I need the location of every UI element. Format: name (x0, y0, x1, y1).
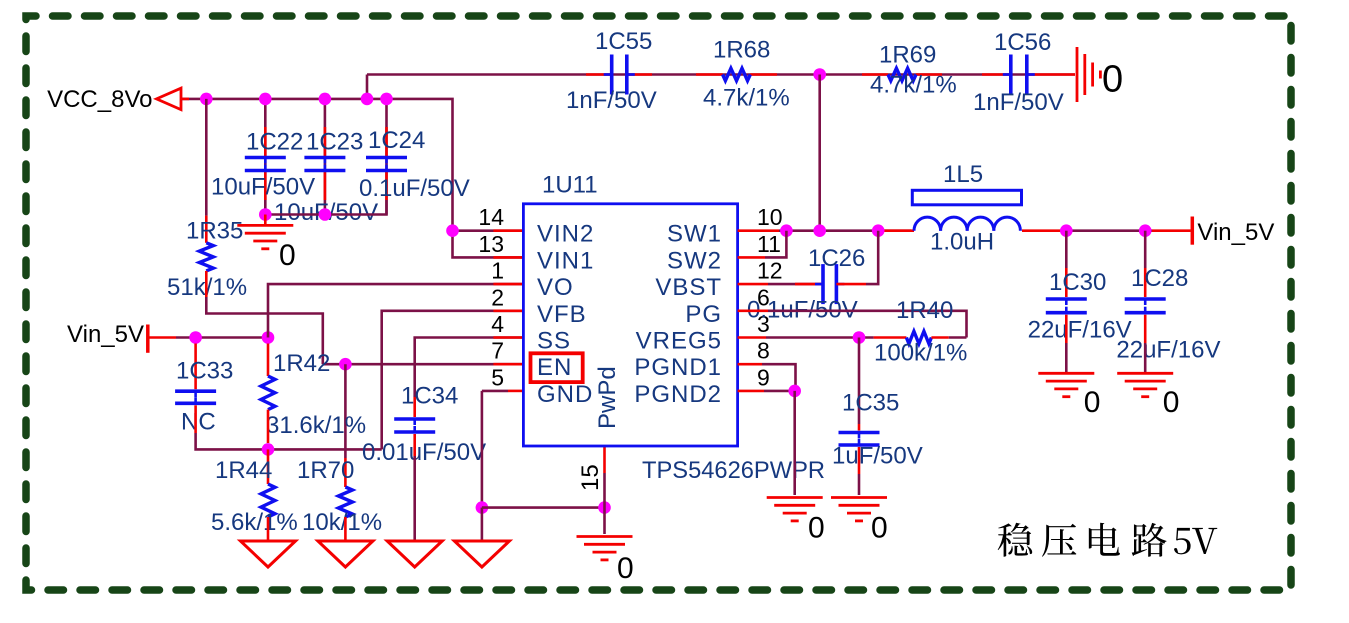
pin name VREG5 (636, 328, 722, 355)
svg-text:10: 10 (757, 204, 783, 230)
wire GND net (482, 390, 508, 393)
svg-text:4: 4 (491, 311, 504, 337)
junction snubber mid node (813, 68, 826, 81)
svg-text:TPS54626PWPR: TPS54626PWPR (642, 457, 825, 484)
junction VO / R42 (262, 331, 275, 344)
power port Vin_5V left (67, 321, 148, 353)
capacitor C22 (211, 129, 315, 201)
wire C34 lead top red (413, 397, 416, 417)
wire R40 right lead red (931, 336, 948, 339)
power port Vin_5V right (1192, 217, 1274, 247)
junction PwPd gnd (598, 501, 611, 514)
wire C24 lead2 red (385, 171, 388, 201)
pin number 14 (478, 204, 504, 230)
ground 0 under PwPd (577, 537, 634, 586)
svg-text:EN: EN (537, 354, 572, 381)
junction SW snubber (813, 224, 826, 237)
ground 0 under C30 (1038, 373, 1100, 419)
wire C22 lead2 red (264, 171, 267, 201)
resistor R70 (297, 457, 382, 536)
wire R70 lead bot red (344, 517, 347, 541)
junction C22 gnd (259, 208, 272, 221)
svg-text:13: 13 (478, 231, 504, 257)
svg-text:1nF/50V: 1nF/50V (973, 89, 1064, 116)
pin name VFB (537, 301, 587, 328)
wire R35 to EN (206, 297, 322, 364)
svg-text:PwPd: PwPd (594, 366, 621, 429)
wire pin lead VREG5 red (738, 336, 766, 339)
wire VCC port stub red (181, 98, 189, 101)
pin number 11 (757, 231, 781, 257)
svg-text:SW1: SW1 (667, 221, 722, 248)
ground 0 under C35 (831, 498, 888, 545)
svg-text:0: 0 (279, 239, 296, 272)
wire R42 lead bot red (267, 410, 270, 443)
wire C28 to gnd (1144, 343, 1147, 373)
junction C28 top (1139, 224, 1152, 237)
wire R40 to PG (949, 336, 967, 339)
wire VCC_8Vo rail (181, 99, 523, 258)
wire pin15 down (603, 473, 606, 534)
svg-text:1R69: 1R69 (879, 42, 936, 69)
wire cap gnd bus (265, 200, 386, 215)
junction GND tri (476, 501, 489, 514)
pin name PG (685, 301, 722, 328)
pin number 3 (757, 311, 770, 337)
wire pin lead PGND2 red (738, 390, 764, 393)
pin name SW2 (667, 247, 722, 274)
svg-text:1C30: 1C30 (1049, 269, 1106, 296)
capacitor C55 (566, 28, 657, 114)
capacitor C23 (274, 129, 378, 226)
svg-text:VFB: VFB (537, 301, 587, 328)
IC U11 TPS54626PWPR body (523, 172, 825, 484)
wire C28 top (1144, 231, 1147, 268)
svg-text:1R44: 1R44 (215, 457, 272, 484)
wire snubber to SW node (818, 75, 821, 231)
wire PGND down (793, 391, 796, 495)
wire pin lead VBST red (738, 283, 768, 286)
wire GND down (481, 391, 484, 508)
ground 0 under C22 (237, 225, 295, 272)
svg-text:5: 5 (491, 364, 504, 390)
wire SS net (415, 338, 524, 398)
pin name PGND1 (634, 354, 722, 381)
wire C23 leads red (324, 127, 327, 158)
svg-text:1U11: 1U11 (542, 172, 598, 199)
wire pin lead GND red (508, 390, 523, 393)
svg-text:14: 14 (478, 204, 504, 230)
wire pin lead VFB red (493, 309, 523, 312)
power port VCC_8Vo (47, 86, 181, 113)
svg-text:NC: NC (181, 409, 216, 436)
svg-text:1C34: 1C34 (401, 383, 458, 410)
wire VBST cap lead red (795, 283, 823, 286)
wire C35 lead bot red (858, 447, 861, 474)
resistor R42 (261, 350, 366, 439)
svg-text:VBST: VBST (655, 274, 722, 301)
capacitor C30 (1028, 269, 1132, 343)
junction C23 top (319, 93, 332, 106)
pin number 9 (757, 364, 770, 390)
wire C26 right lead red (836, 283, 866, 286)
junction PGND (788, 385, 801, 398)
capacitor C28 (1116, 265, 1220, 364)
svg-text:SS: SS (537, 328, 571, 355)
wire C56 right lead red (1027, 73, 1075, 76)
wire C24 leads red (385, 127, 388, 158)
svg-text:VCC_8Vo: VCC_8Vo (47, 86, 152, 113)
svg-text:4.7k/1%: 4.7k/1% (870, 72, 957, 99)
junction C24 top (380, 93, 393, 106)
wire R35 lead top red (205, 216, 208, 243)
wire C22 leads red (264, 127, 267, 158)
wire GND cross (482, 506, 605, 509)
wire pin lead SW1 red (738, 229, 779, 232)
wire R44 lead bot red (267, 517, 270, 541)
wire C23 branch (324, 99, 327, 215)
junction VIN2 node (446, 224, 459, 237)
inductor L5 (912, 161, 1021, 256)
junction EN / R70 (339, 358, 352, 371)
wire VBST net (768, 283, 821, 286)
wire VREG5 net (766, 336, 874, 339)
svg-text:0.01uF/50V: 0.01uF/50V (362, 439, 486, 466)
wire C34 to gnd (413, 456, 416, 541)
wire stub to snubber rail (366, 75, 369, 99)
svg-text:VO: VO (537, 274, 574, 301)
pin number 6 (757, 284, 770, 310)
svg-text:0: 0 (871, 512, 888, 545)
wire R35 lead bot red (205, 271, 208, 297)
wire C35 top (858, 338, 861, 425)
svg-text:1C22: 1C22 (246, 129, 303, 156)
junction SW VBST (872, 224, 885, 237)
wire C56 left lead red (982, 73, 1011, 76)
svg-text:1R70: 1R70 (297, 457, 354, 484)
wire C28 lead top red (1144, 268, 1147, 297)
svg-text:VIN1: VIN1 (537, 247, 594, 274)
wire pin lead PG red (738, 309, 768, 312)
svg-text:1R40: 1R40 (896, 297, 953, 324)
svg-text:1R42: 1R42 (273, 350, 330, 377)
wire C30 lead top red (1065, 268, 1068, 297)
resistor R44 (211, 457, 298, 536)
svg-text:Vin_5V: Vin_5V (67, 321, 144, 348)
wire C35 to gnd (858, 474, 861, 495)
svg-text:PGND2: PGND2 (634, 381, 722, 408)
wire pin lead VIN2 red (493, 229, 523, 232)
wire VO net (268, 284, 523, 337)
wire Vout rail (1066, 229, 1152, 232)
capacitor C56 (973, 29, 1064, 116)
wire SW rail (779, 229, 911, 232)
wire pin15 lead red (603, 446, 606, 473)
pin number 15 (577, 464, 604, 491)
wire EN net (323, 363, 524, 366)
svg-text:8: 8 (757, 338, 770, 364)
wire R42 lead top red (267, 344, 270, 377)
pin name GND (537, 381, 593, 408)
pin number 8 (757, 338, 770, 364)
wire snubber rail (367, 73, 1075, 76)
wire C26 to SW (866, 231, 878, 284)
svg-text:1C55: 1C55 (595, 28, 652, 55)
svg-text:4.7k/1%: 4.7k/1% (703, 85, 790, 112)
svg-text:0: 0 (1163, 386, 1180, 419)
wire C30 top (1065, 231, 1068, 268)
junction FB bus / R44 (262, 443, 275, 456)
svg-text:GND: GND (537, 381, 593, 408)
wire PGND2 net (764, 390, 795, 393)
pin name VO (537, 274, 574, 301)
pin name SW1 (667, 221, 722, 248)
svg-text:1uF/50V: 1uF/50V (832, 442, 923, 469)
svg-text:0: 0 (1102, 58, 1123, 100)
junction C30 top (1060, 224, 1073, 237)
svg-text:100k/1%: 100k/1% (874, 339, 967, 366)
wire pin lead PGND1 red (738, 363, 762, 366)
wire pin lead VO red (493, 283, 523, 286)
wire VIN2 branch (453, 229, 524, 232)
svg-text:0.1uF/50V: 0.1uF/50V (359, 175, 470, 202)
ground triangle under GND (454, 541, 509, 567)
svg-text:PG: PG (685, 301, 722, 328)
wire R68 right lead red (750, 73, 777, 76)
junction SW1/SW2 (780, 224, 793, 237)
wire Vin port lead red (149, 336, 176, 339)
capacitor C26 (747, 245, 865, 323)
pin number 2 (491, 284, 504, 310)
svg-text:Vin_5V: Vin_5V (1197, 219, 1274, 246)
svg-text:1L5: 1L5 (943, 161, 983, 188)
wire Vout port lead red (1152, 229, 1191, 232)
svg-text:7: 7 (491, 338, 504, 364)
svg-text:SW2: SW2 (667, 247, 722, 274)
wire L5 right lead red (1022, 229, 1066, 232)
EN highlight box (531, 353, 583, 382)
wire C33 lead top red (194, 344, 197, 390)
pin number 10 (757, 204, 783, 230)
svg-text:11: 11 (757, 231, 781, 257)
capacitor C24 (359, 127, 470, 202)
wire C55 left lead red (586, 73, 612, 76)
resistor R68 (703, 37, 790, 112)
wire R40 left lead red (874, 336, 907, 339)
junction C23 gnd (319, 208, 332, 221)
pin number 12 (757, 258, 783, 284)
wire R69 left lead red (862, 73, 888, 76)
svg-text:1.0uH: 1.0uH (930, 229, 994, 256)
pin number 5 (491, 364, 504, 390)
svg-text:1nF/50V: 1nF/50V (566, 87, 657, 114)
pin number 7 (491, 338, 504, 364)
junction R35 top (200, 93, 213, 106)
svg-text:1C33: 1C33 (176, 358, 233, 385)
pin name VBST (655, 274, 722, 301)
svg-text:10k/1%: 10k/1% (302, 509, 382, 536)
wire pin lead VIN1 red (493, 256, 523, 259)
wire C30 to gnd (1065, 343, 1068, 373)
ground triangle under C34 (387, 541, 442, 567)
capacitor C35 (832, 390, 923, 470)
wire R68 left lead red (696, 73, 723, 76)
pin number 4 (491, 311, 504, 337)
svg-text:1R68: 1R68 (713, 37, 770, 64)
svg-text:12: 12 (757, 258, 783, 284)
wire C28 lead bot red (1144, 315, 1147, 343)
svg-text:0: 0 (1084, 386, 1101, 419)
wire Vin_5V net (176, 336, 268, 339)
ground triangle under R70 (318, 541, 373, 567)
svg-text:0: 0 (617, 552, 634, 585)
pin number 13 (478, 231, 504, 257)
wire C33 lead bot red (194, 405, 197, 433)
wire C34 lead bot red (413, 434, 416, 456)
ground triangle under R44 (241, 541, 296, 567)
ground 0 top-right (rotated) (1077, 47, 1123, 102)
junction C33 top (189, 331, 202, 344)
svg-text:22uF/16V: 22uF/16V (1116, 337, 1220, 364)
junction snubber stub (361, 93, 374, 106)
resistor R69 (870, 42, 957, 99)
wire C22 branch (264, 99, 267, 215)
pin name PwPd (594, 366, 621, 429)
wire C30 lead bot red (1065, 315, 1068, 343)
svg-text:VIN2: VIN2 (537, 221, 594, 248)
pin number 1 (491, 258, 504, 284)
wire pin lead SW2 red (738, 256, 765, 259)
svg-text:31.6k/1%: 31.6k/1% (266, 412, 366, 439)
svg-text:VREG5: VREG5 (636, 328, 722, 355)
wire SW2 jog (765, 231, 786, 258)
wire R35 top (205, 99, 208, 216)
ground 0 under PGND (767, 498, 825, 545)
svg-text:1C23: 1C23 (306, 129, 363, 156)
svg-text:PGND1: PGND1 (634, 354, 722, 381)
pin name VIN2 (537, 221, 594, 248)
wire gnd stub C22 (264, 215, 267, 226)
svg-text:15: 15 (577, 464, 604, 491)
wire VFB net (382, 311, 524, 450)
wire SW1 to L red (884, 229, 914, 232)
svg-text:5.6k/1%: 5.6k/1% (211, 509, 298, 536)
wire C24 branch (385, 99, 388, 215)
capacitor C33 (175, 358, 233, 436)
svg-text:1C35: 1C35 (842, 390, 899, 417)
ground 0 under C28 (1117, 373, 1179, 419)
pin name EN (537, 354, 572, 381)
svg-text:10uF/50V: 10uF/50V (211, 174, 315, 201)
resistor R40 (874, 297, 967, 366)
wire C55 right lead red (627, 73, 652, 76)
svg-text:9: 9 (757, 364, 770, 390)
svg-text:1: 1 (491, 258, 504, 284)
capacitor C34 (362, 383, 486, 467)
wire GND tri stub (481, 508, 484, 541)
wire PG net (768, 311, 967, 338)
svg-text:2: 2 (491, 284, 504, 310)
svg-text:1C24: 1C24 (368, 127, 425, 154)
svg-text:1R35: 1R35 (186, 218, 243, 245)
resistor R35 (167, 218, 247, 301)
svg-text:1C26: 1C26 (808, 245, 865, 272)
svg-text:1C56: 1C56 (994, 29, 1051, 56)
caption text 稳压电路5V (998, 523, 1218, 557)
wire C33 to FB bus (196, 433, 382, 449)
pin name PGND2 (634, 381, 722, 408)
pin name VIN1 (537, 247, 594, 274)
wire C35 lead top red (858, 424, 861, 431)
svg-text:1C28: 1C28 (1131, 265, 1188, 292)
pin name SS (537, 328, 571, 355)
wire pin lead SS red (493, 336, 523, 339)
wire R69 right lead red (916, 73, 942, 76)
svg-text:0: 0 (808, 512, 825, 545)
junction C22 top (259, 93, 272, 106)
wire pin lead EN red (493, 363, 523, 366)
wire PGND1 jog (762, 364, 796, 391)
wire R70 top (344, 364, 347, 458)
wire R44 lead top red (267, 449, 270, 484)
wire R70 lead top red (344, 458, 347, 487)
wire C23 lead2 red (324, 171, 327, 201)
junction VREG5 C35 (853, 331, 866, 344)
